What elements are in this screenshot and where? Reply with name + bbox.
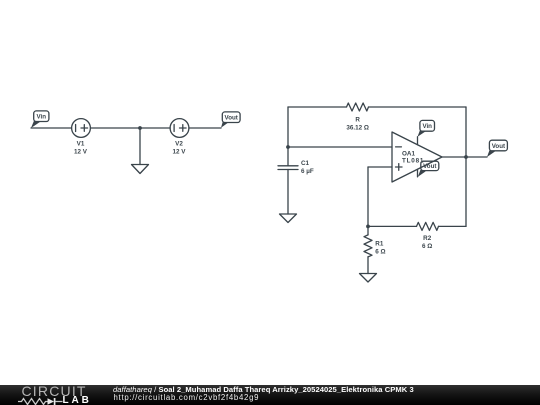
wire minus input bbox=[288, 146, 392, 148]
resistor R2 bbox=[417, 222, 439, 230]
svg-text:Vout: Vout bbox=[225, 115, 238, 122]
wire Vin flag to V1 bbox=[31, 127, 72, 129]
op-amp top power pin bbox=[417, 137, 419, 145]
label R bbox=[346, 117, 369, 132]
flag Vout op-amp bbox=[418, 161, 439, 177]
wire V2 to Vout flag bbox=[189, 127, 221, 129]
svg-text:Vin: Vin bbox=[37, 114, 47, 121]
label V1 bbox=[74, 141, 88, 156]
node minus input bbox=[286, 145, 290, 149]
svg-text:V2: V2 bbox=[175, 141, 183, 148]
svg-text:R2: R2 bbox=[423, 235, 432, 242]
svg-text:12 V: 12 V bbox=[74, 149, 88, 156]
ground under R1 bbox=[360, 274, 377, 283]
op-amp bottom power pin bbox=[417, 169, 419, 177]
node output junction bbox=[464, 155, 468, 159]
label R1 bbox=[375, 241, 385, 256]
svg-text:6 Ω: 6 Ω bbox=[422, 243, 432, 250]
wire V1 to V2 bbox=[90, 127, 170, 129]
wire op-amp output bbox=[442, 156, 487, 158]
flag Vout output bbox=[487, 140, 507, 157]
wire R2 to right rail bbox=[439, 225, 467, 227]
svg-text:OA1: OA1 bbox=[402, 151, 415, 158]
wire resistor R to right rail bbox=[369, 106, 467, 108]
CircuitLab logo bbox=[22, 383, 87, 399]
svg-text:12 V: 12 V bbox=[173, 149, 187, 156]
wire right rail bbox=[465, 107, 467, 226]
node R1 top junction bbox=[366, 225, 370, 229]
svg-text:36.12 Ω: 36.12 Ω bbox=[346, 124, 369, 131]
footer caption line 2 bbox=[114, 393, 260, 402]
svg-text:TL081: TL081 bbox=[402, 158, 424, 165]
capacitor C1 bbox=[278, 166, 298, 170]
flag Vout left bbox=[221, 112, 240, 128]
wire left rail top bbox=[287, 107, 289, 166]
svg-text:Vin: Vin bbox=[422, 123, 432, 130]
node junction left circuit bbox=[138, 126, 142, 130]
resistor R bbox=[347, 103, 369, 111]
label C1 bbox=[301, 160, 314, 175]
svg-text:R: R bbox=[355, 117, 360, 124]
flag Vin op-amp bbox=[418, 120, 435, 136]
wire plus input bbox=[368, 166, 392, 168]
footer bar bbox=[0, 385, 540, 405]
label OA1 bbox=[402, 151, 424, 165]
svg-text:C1: C1 bbox=[301, 160, 310, 167]
svg-text:Vout: Vout bbox=[423, 163, 436, 170]
op-amp OA1 bbox=[392, 132, 442, 182]
wire junction to ground bbox=[139, 128, 141, 165]
svg-text:6 µF: 6 µF bbox=[301, 168, 314, 175]
wire plus input down bbox=[367, 167, 369, 226]
voltage source V1 bbox=[72, 119, 91, 138]
voltage source V2 bbox=[170, 119, 189, 138]
svg-text:V1: V1 bbox=[77, 141, 85, 148]
wire C1 to ground bbox=[287, 170, 289, 215]
footer caption line 1 bbox=[113, 385, 414, 394]
label V2 bbox=[173, 141, 187, 156]
ground left circuit bbox=[132, 165, 149, 174]
label R2 bbox=[422, 235, 432, 250]
wire bottom feedback bbox=[368, 225, 417, 227]
flag Vin left bbox=[31, 111, 49, 128]
svg-text:Vout: Vout bbox=[492, 143, 505, 150]
svg-text:R1: R1 bbox=[375, 241, 384, 248]
svg-text:6 Ω: 6 Ω bbox=[375, 249, 385, 256]
ground under C1 bbox=[280, 214, 297, 223]
resistor R1 bbox=[364, 226, 372, 273]
wire top to resistor R bbox=[288, 106, 347, 108]
